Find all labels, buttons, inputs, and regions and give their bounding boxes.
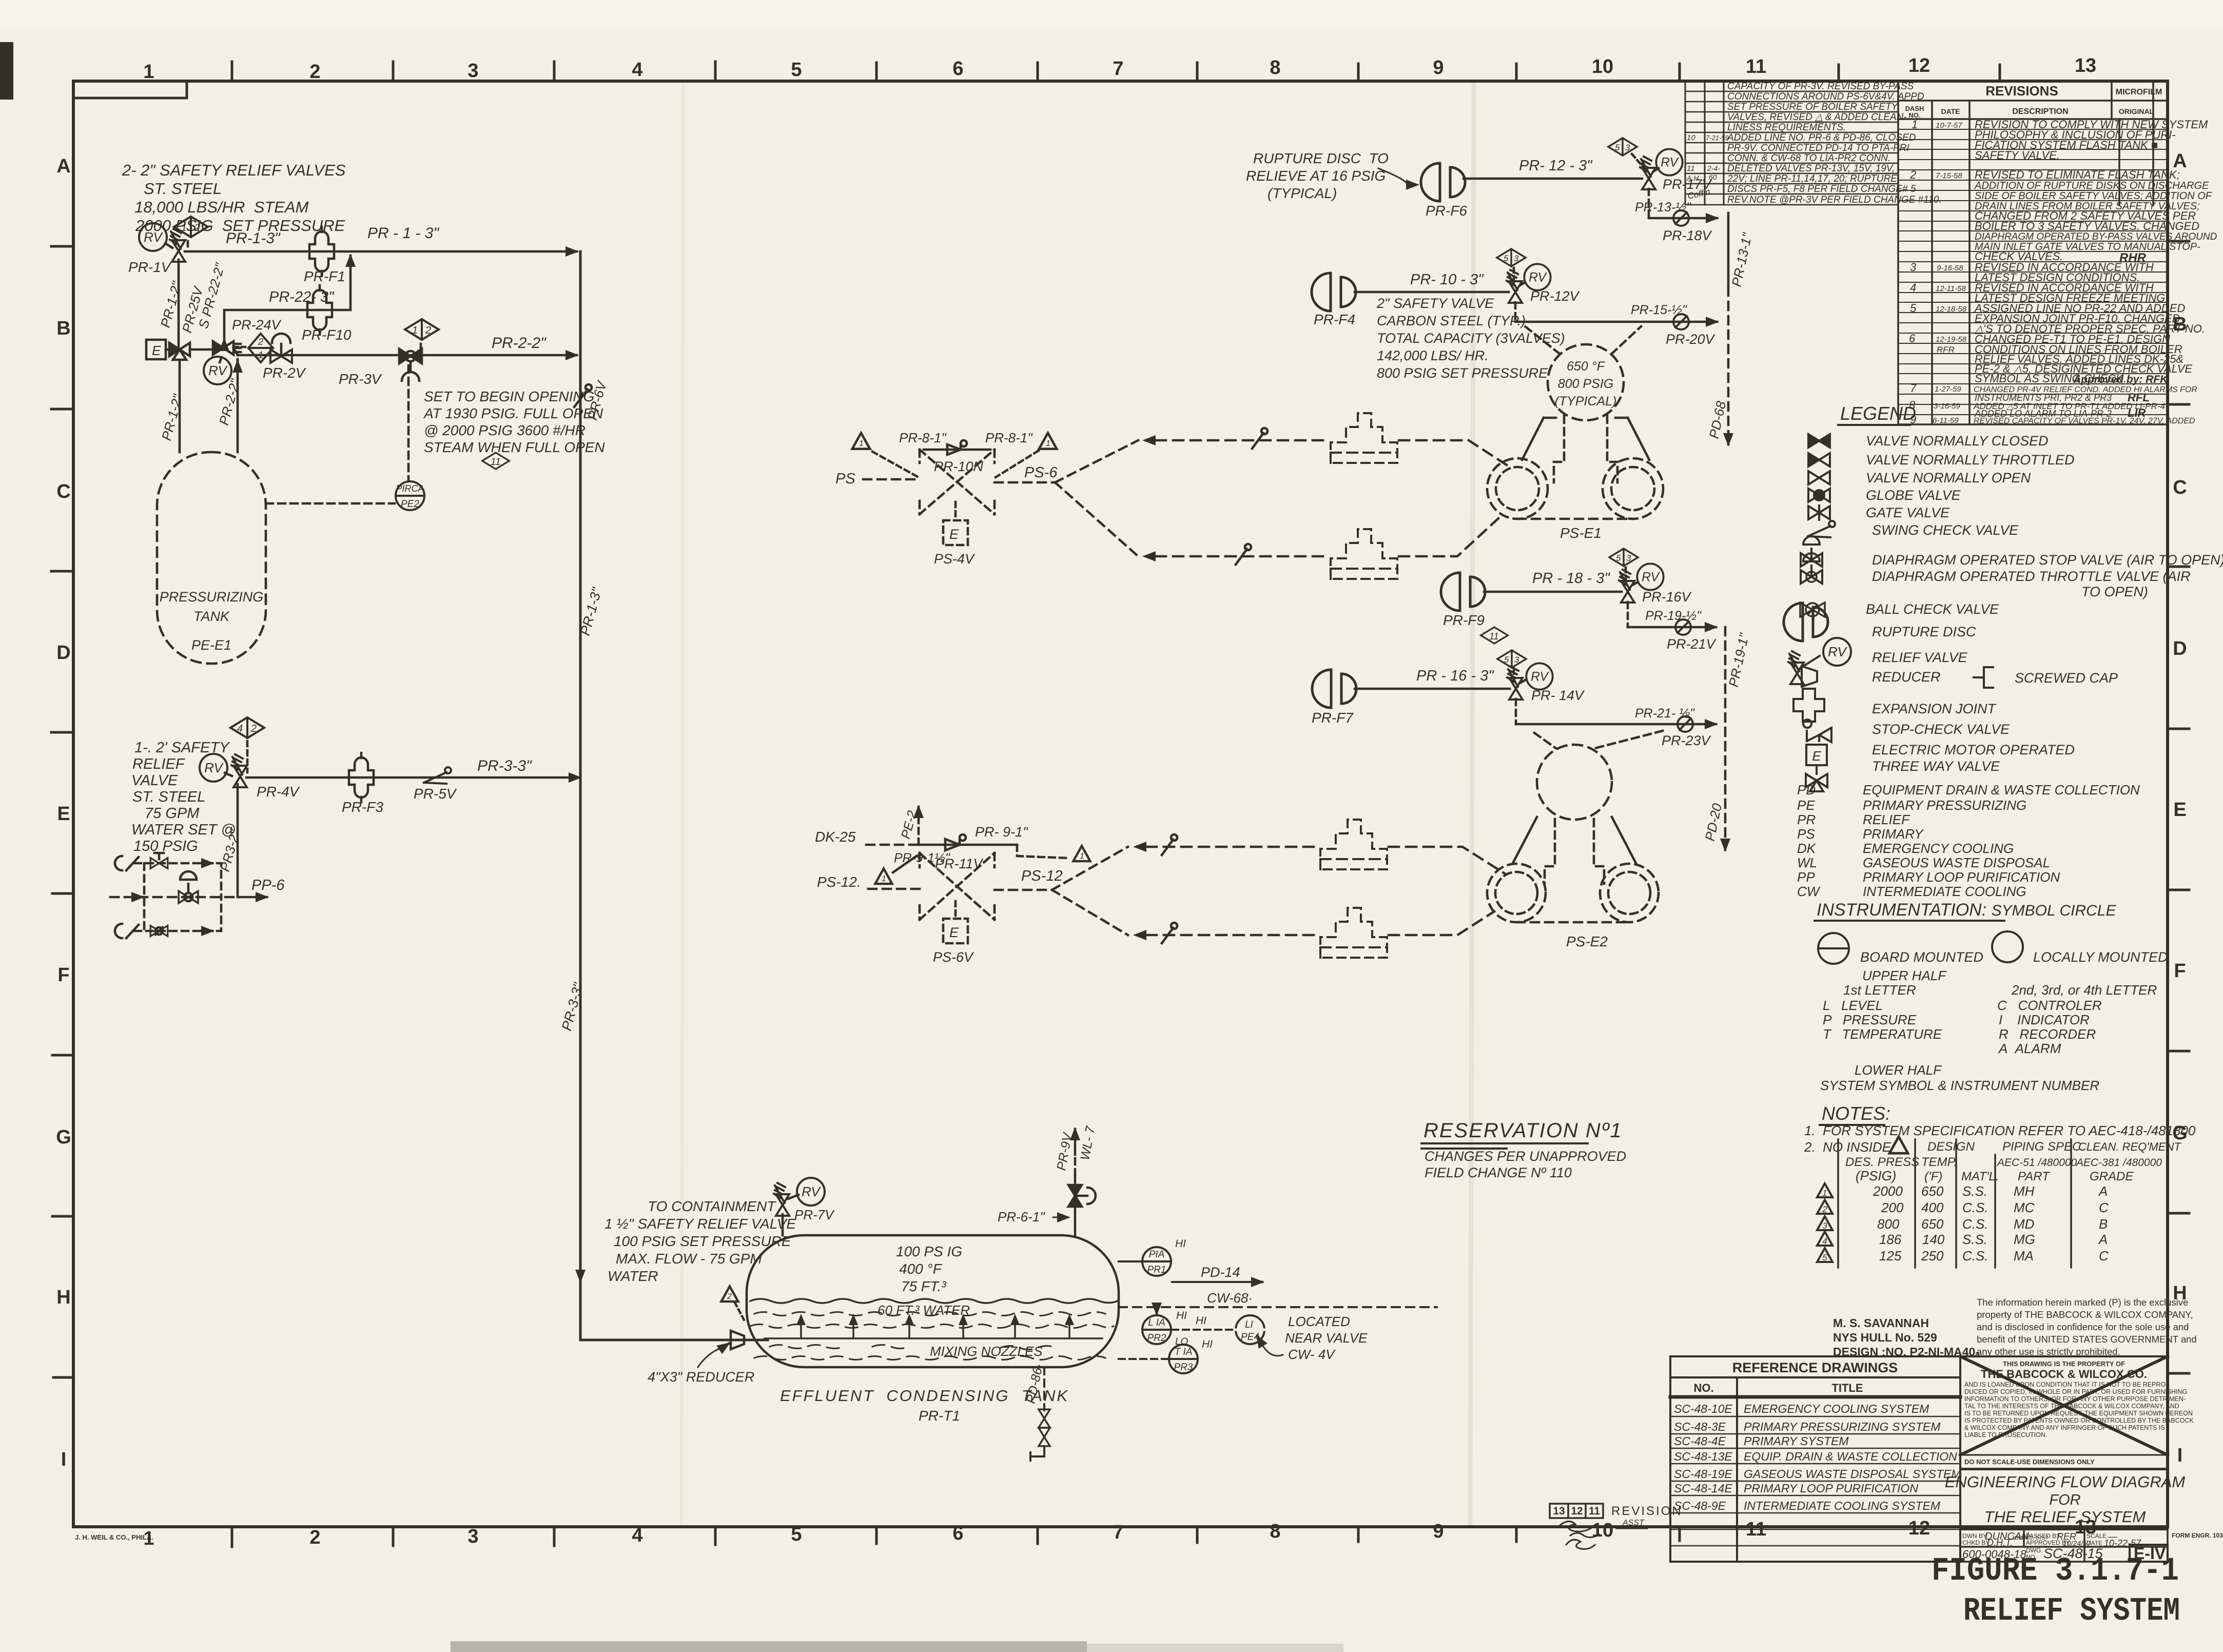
svg-text:12-11-58: 12-11-58 (1936, 284, 1966, 293)
svg-text:PR-9V. CONNECTED PD-14 TO PTA-: PR-9V. CONNECTED PD-14 TO PTA-PRI (1727, 143, 1909, 153)
svg-text:142,000 LBS/ HR.: 142,000 LBS/ HR. (1377, 348, 1489, 363)
mixing nozzle header (765, 1337, 1102, 1339)
svg-text:E: E (152, 343, 161, 358)
note text: to containment (604, 1198, 796, 1284)
svg-text:CONN. & CW-68 TO LIA-PR2 CONN.: CONN. & CW-68 TO LIA-PR2 CONN. (1727, 153, 1890, 164)
crossover valve PR-10N dashed X (920, 450, 995, 514)
svg-text:1: 1 (1080, 852, 1084, 861)
wire to PS-E2 upper (1146, 846, 1319, 848)
svg-text:A ALARM: A ALARM (1998, 1041, 2061, 1056)
riser PR3-2" (237, 784, 239, 897)
svg-text:1-27-59: 1-27-59 (1935, 385, 1961, 394)
svg-text:E: E (1812, 748, 1821, 764)
rupture disc PR-F7 (1312, 670, 1356, 708)
svg-text:PR-16V: PR-16V (1642, 589, 1692, 605)
expansion bellows (stepped) PS-E2 lower (1320, 908, 1387, 958)
svg-text:PR-F6: PR-F6 (1426, 203, 1467, 219)
svg-text:SWING CHECK VALVE: SWING CHECK VALVE (1872, 522, 2019, 538)
bypass dashed assembly upper row (134, 863, 221, 897)
relief valve PR-7V on tank (782, 1214, 784, 1235)
svg-text:LOCALLY MOUNTED: LOCALLY MOUNTED (2033, 949, 2168, 965)
svg-text:SIDE OF BOILER SAFETY VALVES;: SIDE OF BOILER SAFETY VALVES; ADDITION O… (1975, 190, 2213, 202)
svg-text:PR-T1: PR-T1 (919, 1408, 960, 1424)
svg-text:C.S.: C.S. (1962, 1248, 1988, 1264)
svg-text:HI: HI (1175, 1238, 1186, 1250)
svg-text:G: G (56, 1126, 71, 1148)
svg-text:1. FOR SYSTEM SPECIFICATION R: 1. FOR SYSTEM SPECIFICATION REFER TO AEC… (1804, 1123, 2196, 1138)
svg-text:2: 2 (194, 222, 200, 234)
bypass dashed assembly lower row (134, 897, 221, 931)
svg-text:DIAPHRAGM OPERATED THROTTLE VA: DIAPHRAGM OPERATED THROTTLE VALVE (AIR (1872, 569, 2191, 584)
diamond 5/3 above PR-14V (1497, 650, 1526, 668)
legend symbol: valve normally throttled (1808, 453, 1830, 467)
svg-text:F: F (2174, 960, 2186, 982)
diamond 11 (482, 453, 510, 469)
svg-text:1: 1 (1046, 439, 1050, 448)
dashed signal to PIRCA (407, 365, 410, 480)
svg-text:REVISED CAPACITY OF VALVES PR-: REVISED CAPACITY OF VALVES PR-1V, 24V, 2… (1974, 417, 2195, 425)
svg-text:ORIGINAL: ORIGINAL (2119, 107, 2154, 115)
svg-text:1: 1 (181, 222, 187, 234)
svg-text:VALVES, REVISED △ & ADDED CLEA: VALVES, REVISED △ & ADDED CLEAN- (1727, 112, 1907, 123)
swing check valve (bypass upper) (115, 856, 139, 870)
svg-text:MD: MD (2014, 1216, 2034, 1232)
svg-text:C CONTROLER: C CONTROLER (1997, 998, 2102, 1013)
electric operator E box PS-4V (943, 520, 968, 545)
NOTES (1804, 1103, 2196, 1268)
svg-text:PR-3V: PR-3V (339, 371, 382, 387)
svg-text:8: 8 (1270, 57, 1280, 79)
svg-text:I INDICATOR: I INDICATOR (1999, 1012, 2090, 1027)
svg-text:PRIMARY LOOP PURIFICATION: PRIMARY LOOP PURIFICATION (1744, 1482, 1918, 1495)
diaphragm valve on PP-6 (179, 871, 198, 903)
svg-text:DUCED OR COPIED, IN WHOLE OR I: DUCED OR COPIED, IN WHOLE OR IN PART, OR… (1964, 1388, 2187, 1395)
svg-text:7-15-58: 7-15-58 (1936, 171, 1962, 180)
svg-text:D.H.T.: D.H.T. (1987, 1538, 2013, 1548)
svg-text:1: 1 (859, 439, 864, 448)
svg-text:& WILCOX COMPANY AND ANY INFRI: & WILCOX COMPANY AND ANY INFRINGER OF SU… (1964, 1424, 2165, 1431)
svg-text:EQUIPMENT DRAIN & WASTE COLLEC: EQUIPMENT DRAIN & WASTE COLLECTION (1863, 782, 2140, 798)
svg-text:150 PSIG: 150 PSIG (133, 838, 198, 854)
system abbreviations (1797, 782, 2140, 899)
note text: rupture disc to relieve (1246, 150, 1389, 201)
svg-text:WATER: WATER (608, 1268, 658, 1284)
boiler circle 650F (1548, 344, 1624, 420)
support trapezoid (1522, 418, 1649, 460)
svg-text:TEMP.: TEMP. (1921, 1155, 1957, 1169)
svg-text:PR-3-3": PR-3-3" (477, 757, 532, 774)
diamond 5/3 above PR-12V (1497, 249, 1526, 266)
svg-text:C.S.: C.S. (1962, 1200, 1988, 1215)
svg-text:PD-14: PD-14 (1201, 1265, 1240, 1280)
svg-text:TOTAL CAPACITY (3VALVES): TOTAL CAPACITY (3VALVES) (1377, 331, 1565, 346)
svg-text:REVISION: REVISION (1611, 1504, 1683, 1518)
svg-text:INTERMEDIATE COOLING: INTERMEDIATE COOLING (1863, 884, 2026, 899)
svg-text:DESIGN: DESIGN (1927, 1140, 1975, 1154)
wire PP-6 dashed (110, 896, 238, 899)
svg-text:PE-E1: PE-E1 (191, 637, 231, 653)
support trapezoid (1513, 817, 1636, 863)
svg-text:PS-6V: PS-6V (933, 949, 974, 965)
svg-text:5: 5 (1504, 655, 1509, 665)
svg-text:4: 4 (1910, 281, 1916, 294)
line blind upper (1252, 428, 1267, 449)
pressurizing tank PE-E1 (157, 452, 266, 664)
svg-text:MAT'L.: MAT'L. (1961, 1170, 1999, 1183)
svg-text:PR-8-1": PR-8-1" (899, 430, 947, 445)
expansion bellows (stepped) upper (1331, 413, 1397, 463)
svg-text:2-4-: 2-4- (1707, 164, 1720, 172)
electric motor operator E box (146, 340, 166, 359)
relief valve PR-1V (170, 229, 185, 262)
svg-text:INTERMEDIATE COOLING SYSTEM: INTERMEDIATE COOLING SYSTEM (1744, 1499, 1941, 1512)
svg-text:PP-6: PP-6 (251, 877, 285, 893)
svg-text:100 PSIG SET PRESSURE: 100 PSIG SET PRESSURE (614, 1233, 791, 1249)
ball check valve (bypass lower) (115, 924, 139, 938)
legend symbol: gate valve (1808, 506, 1830, 520)
svg-text:PD: PD (1797, 782, 1816, 798)
svg-text:PR - 1 - 3": PR - 1 - 3" (367, 225, 439, 242)
svg-text:4: 4 (632, 1525, 642, 1546)
svg-text:CW: CW (1797, 884, 1821, 899)
vent valve PR-9V and WL-7 (1074, 1212, 1077, 1235)
svg-text:11: 11 (1746, 56, 1766, 77)
svg-text:CW-68·: CW-68· (1207, 1290, 1253, 1306)
riser to pressurizing tank (237, 359, 239, 452)
svg-text:CW- 4V: CW- 4V (1288, 1347, 1336, 1362)
svg-text:PR-18V: PR-18V (1663, 228, 1713, 243)
svg-text:REV.NOTE @PR-3V PER FIELD CHAN: REV.NOTE @PR-3V PER FIELD CHANGE #110. (1727, 195, 1942, 205)
spec triangle right (1074, 846, 1090, 861)
svg-text:The information herein marked: The information herein marked (P) is the… (1977, 1297, 2188, 1308)
svg-text:2000: 2000 (1873, 1183, 1903, 1199)
svg-text:EXPANSION JOINT: EXPANSION JOINT (1872, 701, 1997, 716)
spec triangle 1 right (1039, 433, 1057, 449)
drain wire from PR-12V (1514, 302, 1517, 322)
svg-text:DES. PRESS: DES. PRESS (1845, 1155, 1919, 1169)
legend symbol: screwed cap (1974, 667, 1993, 688)
svg-text:PR-13-½": PR-13-½" (1635, 200, 1691, 215)
relief valve PR-14V (1507, 667, 1523, 699)
svg-text:D: D (56, 642, 70, 664)
svg-text:DK: DK (1797, 841, 1817, 856)
svg-text:FIELD CHANGE Nº 110: FIELD CHANGE Nº 110 (1425, 1165, 1572, 1180)
expansion joint PR-F10 (307, 285, 332, 335)
svg-text:FIGURE 3.1.7-1: FIGURE 3.1.7-1 (1932, 1553, 2179, 1590)
diamond 5/3 above PR-17V (1608, 138, 1637, 156)
svg-text:PIRCA: PIRCA (396, 483, 424, 494)
svg-text:PS-E2: PS-E2 (1566, 934, 1608, 949)
svg-text:3: 3 (1822, 1221, 1827, 1231)
svg-text:PR1: PR1 (1147, 1265, 1166, 1275)
svg-text:ST. STEEL: ST. STEEL (144, 180, 222, 198)
tank PR-T1 shell (747, 1235, 1119, 1367)
svg-text:GRADE: GRADE (2090, 1170, 2134, 1183)
svg-text:NYS HULL No. 529: NYS HULL No. 529 (1833, 1331, 1937, 1344)
svg-text:(TYPICAL): (TYPICAL) (1267, 185, 1337, 201)
pump PS-E2 right (1600, 864, 1659, 922)
svg-text:C: C (2099, 1200, 2109, 1215)
turbine circle (1537, 745, 1612, 820)
svg-text:LINESS REQUIREMENTS.: LINESS REQUIREMENTS. (1727, 122, 1846, 133)
legend symbol: reducer (1802, 666, 1817, 687)
wire PR-2-2" main run (238, 354, 577, 357)
svg-text:PR - 16 - 3": PR - 16 - 3" (1416, 668, 1494, 684)
svg-text:PS-6: PS-6 (1024, 464, 1058, 481)
svg-text:SC-48-14E: SC-48-14E (1674, 1482, 1732, 1495)
svg-text:13: 13 (2075, 55, 2096, 76)
svg-text:2: 2 (727, 1292, 732, 1301)
svg-text:DIAPHRAGM OPERATED BY-PASS VAL: DIAPHRAGM OPERATED BY-PASS VALVES AROUND (1975, 231, 2217, 242)
svg-text:2: 2 (250, 723, 257, 734)
svg-text:ELECTRIC MOTOR OPERATED: ELECTRIC MOTOR OPERATED (1872, 742, 2075, 757)
pump PS-E1 left (1487, 458, 1548, 519)
svg-text:E: E (57, 803, 70, 825)
svg-text:1st LETTER: 1st LETTER (1843, 982, 1916, 998)
wire CW-68 dashed (1119, 1306, 1437, 1308)
line blind lower (PS-E2) (1162, 923, 1177, 943)
wire fan to PS-E1 (1055, 440, 1138, 556)
svg-text:2: 2 (258, 337, 263, 347)
svg-text:PR2: PR2 (1147, 1333, 1166, 1344)
svg-text:FOR: FOR (2049, 1492, 2080, 1508)
note text: 2" safety valve (1376, 296, 1565, 381)
svg-text:7: 7 (1113, 58, 1123, 80)
signature scribbles (1560, 1521, 1591, 1531)
wire to PS-E2 lower (1146, 934, 1319, 937)
wire PR-22-3" (224, 256, 350, 339)
svg-text:PR-2V: PR-2V (263, 365, 306, 381)
svg-text:SCREWED CAP: SCREWED CAP (2015, 670, 2118, 686)
svg-text:12: 12 (1571, 1505, 1583, 1517)
stop check PR-6V on vertical (574, 384, 592, 407)
svg-text:(PSIG): (PSIG) (1856, 1168, 1896, 1183)
svg-text:H: H (56, 1287, 70, 1308)
svg-text:10: 10 (1592, 56, 1613, 77)
svg-text:ENGINEERING FLOW DIAGRAM: ENGINEERING FLOW DIAGRAM (1945, 1473, 2186, 1491)
svg-text:PR-21- ⅛": PR-21- ⅛" (1635, 706, 1695, 721)
reducer 4x3 (731, 1331, 744, 1349)
svg-text:800: 800 (1877, 1216, 1900, 1232)
nozzle arrows (796, 1314, 1074, 1337)
svg-text:12-19-58: 12-19-58 (1936, 335, 1967, 344)
svg-text:140: 140 (1922, 1232, 1945, 1247)
svg-text:PR-11V: PR-11V (935, 856, 984, 871)
svg-text:75 GPM: 75 GPM (145, 805, 200, 822)
svg-text:any other use is strictly proh: any other use is strictly prohibited. (1977, 1346, 2120, 1357)
line blind upper (PS-E2) (1162, 834, 1177, 855)
svg-text:PRIMARY SYSTEM: PRIMARY SYSTEM (1744, 1434, 1849, 1448)
svg-text:3: 3 (1626, 553, 1631, 563)
svg-text:B: B (2099, 1216, 2108, 1232)
svg-text:650: 650 (1921, 1183, 1944, 1199)
water surface (750, 1299, 1118, 1303)
svg-text:3: 3 (1514, 655, 1519, 665)
svg-text:1: 1 (1912, 118, 1918, 131)
diaphragm valve PR-3V (399, 349, 422, 381)
svg-text:FORM ENGR. 103-S: FORM ENGR. 103-S (2172, 1532, 2223, 1539)
svg-text:3-16-59: 3-16-59 (1934, 402, 1960, 411)
svg-text:10: 10 (1687, 133, 1695, 142)
svg-text:200: 200 (1881, 1200, 1904, 1215)
svg-text:REDUCER: REDUCER (1872, 669, 1941, 685)
svg-text:1 ½" SAFETY RELIEF VALVE: 1 ½" SAFETY RELIEF VALVE (604, 1216, 796, 1232)
svg-text:1: 1 (412, 325, 418, 336)
drawing title (1945, 1473, 2186, 1526)
svg-text:B: B (56, 318, 70, 339)
svg-text:800 PSIG: 800 PSIG (1558, 377, 1613, 391)
svg-text:A: A (2098, 1183, 2108, 1199)
svg-text:DELETED VALVES PR-13V, 15V, 19: DELETED VALVES PR-13V, 15V, 19V, (1727, 163, 1895, 174)
svg-text:R RECORDER: R RECORDER (1999, 1026, 2096, 1042)
svg-text:12: 12 (1908, 55, 1930, 76)
spec triangle below PR-9-1.5 (875, 868, 892, 884)
svg-text:11: 11 (1589, 1505, 1601, 1517)
svg-text:9-16-58: 9-16-58 (1937, 264, 1963, 273)
svg-text:PS-4V: PS-4V (934, 551, 976, 567)
wire PR-18-3" (1484, 591, 1622, 593)
stop valve PR-25V with hatches (213, 341, 241, 355)
svg-text:PR-F3: PR-F3 (342, 799, 383, 815)
expansion bellows (stepped) lower (1331, 529, 1397, 579)
svg-text:GLOBE VALVE: GLOBE VALVE (1866, 488, 1961, 503)
svg-text:800 PSIG SET PRESSURE: 800 PSIG SET PRESSURE (1377, 365, 1548, 381)
svg-text:AND IS LOANED UPON CONDITION T: AND IS LOANED UPON CONDITION THAT IT IS … (1964, 1381, 2168, 1388)
svg-text:BOARD MOUNTED: BOARD MOUNTED (1860, 949, 1983, 965)
svg-text:2" SAFETY VALVE: 2" SAFETY VALVE (1376, 296, 1494, 311)
header PD-68 vertical (1727, 213, 1730, 287)
legend symbol: swing check valve (1808, 521, 1835, 537)
node PE-2 riser (918, 814, 920, 845)
svg-text:SC-48-13E: SC-48-13E (1674, 1450, 1732, 1463)
svg-text:650 °F: 650 °F (1567, 359, 1606, 374)
svg-text:GATE VALVE: GATE VALVE (1866, 505, 1950, 520)
svg-text:250: 250 (1921, 1248, 1944, 1264)
line blind lower (1236, 544, 1251, 565)
svg-text:MG: MG (2014, 1232, 2035, 1247)
svg-text:MC: MC (2014, 1200, 2035, 1215)
svg-text:PR-F1: PR-F1 (304, 268, 345, 284)
svg-text:4: 4 (237, 723, 243, 734)
diamond 1/2 (174, 217, 208, 237)
svg-text:2: 2 (1909, 168, 1916, 181)
signature cells (1960, 1469, 2168, 1562)
svg-text:3: 3 (1625, 143, 1630, 152)
svg-text:I: I (2177, 1445, 2183, 1466)
svg-text:8: 8 (1270, 1521, 1280, 1542)
svg-text:400: 400 (1921, 1200, 1944, 1215)
throttle valve PR-20V (1669, 314, 1693, 329)
svg-text:PP: PP (1797, 869, 1815, 885)
svg-text:J. H. WEIL & CO., PHILA.: J. H. WEIL & CO., PHILA. (75, 1533, 153, 1541)
svg-text:SET TO BEGIN OPENING: SET TO BEGIN OPENING (424, 388, 594, 404)
svg-text:PR-F4: PR-F4 (1314, 312, 1355, 327)
rupture disc PR-F9 (1441, 573, 1485, 611)
svg-text:PIPING SPEC.: PIPING SPEC. (2002, 1140, 2084, 1154)
svg-text:MICROFILM: MICROFILM (2116, 88, 2162, 96)
REVISIONS table (1898, 81, 2217, 426)
svg-text:F: F (57, 964, 69, 986)
svg-text:2. NO INSIDE: 2. NO INSIDE (1804, 1139, 1892, 1155)
crossover valve PR-11V dashed X (920, 853, 995, 920)
svg-text:RUPTURE DISC TO: RUPTURE DISC TO (1253, 150, 1389, 166)
svg-text:100 PS IG: 100 PS IG (896, 1243, 962, 1259)
svg-text:11: 11 (491, 457, 501, 468)
svg-text:E: E (949, 925, 959, 940)
svg-text:Approved by: RFK: Approved by: RFK (2073, 374, 2169, 385)
relief valve PR-12V (1507, 270, 1522, 303)
svg-text:ASST: ASST (1622, 1519, 1645, 1527)
svg-text:PR-4V: PR-4V (257, 784, 300, 800)
svg-text:EQUIP. DRAIN & WASTE COLLECTIO: EQUIP. DRAIN & WASTE COLLECTION (1744, 1450, 1957, 1463)
svg-text:9: 9 (1433, 57, 1444, 79)
svg-text:SYSTEM SYMBOL & INSTRUMENT NUM: SYSTEM SYMBOL & INSTRUMENT NUMBER (1820, 1078, 2099, 1093)
svg-text:DO NOT SCALE-USE DIMENSIONS ON: DO NOT SCALE-USE DIMENSIONS ONLY (1964, 1458, 2095, 1466)
svg-text:NOTES:: NOTES: (1822, 1103, 1890, 1124)
svg-text:5: 5 (791, 59, 802, 81)
svg-text:MIXING NOZZLES: MIXING NOZZLES (930, 1344, 1043, 1359)
svg-text:3: 3 (1910, 261, 1917, 274)
svg-text:2: 2 (309, 1527, 320, 1548)
Babcock & Wilcox crossed property box (1945, 1356, 2194, 1563)
note text: set to begin opening (423, 388, 605, 455)
svg-text:SC-48-19E: SC-48-19E (1674, 1467, 1732, 1481)
svg-text:LOWER HALF: LOWER HALF (1855, 1062, 1942, 1078)
svg-text:PRESSURIZING: PRESSURIZING (160, 589, 264, 605)
svg-text:LOCATED: LOCATED (1288, 1314, 1350, 1329)
svg-text:PR-F9: PR-F9 (1443, 612, 1485, 628)
svg-text:DESCRIPTION: DESCRIPTION (2012, 107, 2068, 116)
svg-text:A: A (2098, 1232, 2108, 1247)
svg-text:PR3: PR3 (1174, 1362, 1193, 1373)
svg-text:PR-2-2": PR-2-2" (492, 335, 547, 352)
note 2 triangle (1889, 1137, 1908, 1153)
diamond 1/2 above PR-3V (405, 319, 439, 340)
svg-text:1: 1 (143, 61, 154, 83)
dashed risers from boiler to relief lines (1525, 326, 1641, 354)
svg-text:RFR: RFR (1937, 345, 1955, 355)
locally mounted instrument circle (1992, 931, 2023, 962)
svg-text:L LEVEL: L LEVEL (1823, 998, 1883, 1013)
diamond 4/2 (230, 717, 264, 738)
svg-text:PIA: PIA (1149, 1249, 1165, 1260)
svg-text:7: 7 (1910, 382, 1917, 395)
svg-text:3: 3 (467, 60, 478, 82)
spec triangle 1 left (852, 433, 870, 449)
spec triangle 2 at tank inlet (722, 1286, 738, 1301)
RV circle PR-4V (200, 754, 227, 782)
svg-text:CONNECTIONS AROUND PS-6V&4V. A: CONNECTIONS AROUND PS-6V&4V. APPD (1727, 91, 1924, 102)
svg-text:MH: MH (2014, 1183, 2035, 1199)
water squiggles (750, 1312, 1114, 1360)
pump PS-E1 right (1603, 458, 1663, 519)
throttle valve PR-18V (1669, 210, 1693, 226)
svg-text:12-18-58: 12-18-58 (1936, 305, 1967, 314)
svg-text:CARBON STEEL (TYP.): CARBON STEEL (TYP.) (1377, 313, 1526, 328)
svg-text:5: 5 (1616, 553, 1621, 563)
note text: 1-2" safety relief valve (131, 740, 236, 854)
svg-text:I: I (61, 1449, 67, 1470)
RV circle for PR-1V (139, 223, 167, 251)
svg-text:REFERENCE DRAWINGS: REFERENCE DRAWINGS (1732, 1360, 1898, 1375)
svg-text:property of THE BABCOCK & WILC: property of THE BABCOCK & WILCOX COMPANY… (1977, 1309, 2193, 1320)
svg-text:NEAR VALVE: NEAR VALVE (1285, 1330, 1368, 1346)
svg-text:SET PRESSURE OF BOILER SAFETY: SET PRESSURE OF BOILER SAFETY (1727, 102, 1899, 112)
svg-text:5: 5 (791, 1524, 802, 1545)
svg-text:PR- 12 - 3": PR- 12 - 3" (1519, 158, 1593, 174)
wire PR-19-1/2" (1628, 626, 1714, 629)
svg-text:RESERVATION Nº1: RESERVATION Nº1 (1423, 1119, 1623, 1142)
